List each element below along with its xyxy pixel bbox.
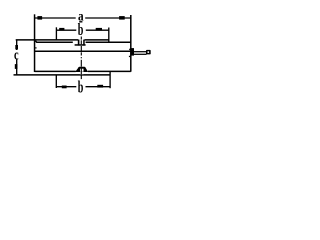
- serif bar above top b label: [79, 21, 82, 22]
- dimension b top line left segment: [56, 29, 76, 31]
- load cell outline drawing: [0, 0, 168, 98]
- svg-text:c: c: [14, 47, 19, 63]
- hole axis center line dash-dot chain: [80, 37, 82, 80]
- svg-text:b: b: [78, 78, 84, 97]
- svg-text:b: b: [78, 20, 84, 39]
- body top face line right of hole: [85, 39, 109, 41]
- inner top edge line right of hole: [86, 41, 131, 43]
- dimension a right arrow: [119, 16, 125, 20]
- body top face line with c-extension, gap at hole: [16, 39, 79, 41]
- ferrule white bore: [148, 51, 150, 53]
- slot line: [35, 50, 131, 52]
- dimension b top right extension tick and body step: [108, 28, 110, 43]
- dimension c vertical line lower segment: [16, 59, 18, 74]
- dimension b top line right segment: [86, 29, 109, 31]
- center line dash through boss bore: [80, 68, 82, 75]
- dimension a line right segment: [85, 17, 131, 19]
- dimension c bottom arrow: [15, 64, 18, 69]
- dimension b top left arrow: [59, 28, 64, 31]
- dimension b top left extension tick: [55, 27, 57, 40]
- cable top line: [134, 51, 147, 53]
- inner bottom line left of boss: [35, 70, 76, 72]
- dimension b bottom right extension: [109, 71, 111, 88]
- body left face with a-extension: [34, 14, 36, 72]
- top center hole left wall: [78, 40, 80, 46]
- cable bottom line: [134, 53, 147, 55]
- inner top edge line left of hole with end hook: [35, 41, 73, 42]
- dimension b bottom right arrow: [97, 85, 103, 88]
- cable end ferrule: [146, 50, 151, 55]
- gland nub upper-left: [129, 49, 131, 50]
- bottom face line with c-extension: [14, 74, 111, 76]
- dimension c vertical line upper segment: [16, 40, 18, 50]
- dimension c top arrow: [15, 45, 18, 49]
- dimension b bottom line right segment: [86, 86, 111, 88]
- cable gland block: [131, 48, 134, 56]
- white break in bottom lines under boss bore: [80, 72, 84, 74]
- dimension b top right arrow: [96, 28, 102, 31]
- bottom center boss white bore: [80, 69, 84, 72]
- dimension b bottom line left segment: [56, 86, 76, 88]
- dimension a left arrow: [37, 16, 42, 20]
- dimension b bottom left arrow: [62, 86, 67, 89]
- top center hole bottom lip bar: [75, 44, 86, 46]
- top center hole right wall: [83, 40, 85, 46]
- inner bottom line right of boss: [88, 70, 131, 72]
- body right face with a-extension: [130, 15, 132, 72]
- gland nub lower-left: [129, 56, 130, 57]
- bottom center boss filled trapezoid: [75, 67, 88, 72]
- dimension a line left segment: [34, 17, 75, 19]
- slot nub at left face: [35, 47, 37, 49]
- dimension b bottom left extension: [55, 75, 57, 88]
